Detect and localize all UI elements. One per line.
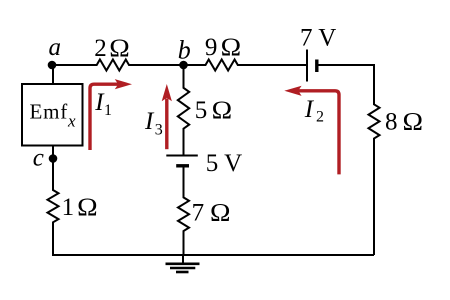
svg-text:Ω: Ω <box>210 200 231 227</box>
svg-text:2: 2 <box>316 108 324 125</box>
svg-text:I: I <box>144 108 155 135</box>
svg-text:Ω: Ω <box>77 194 98 221</box>
svg-text:x: x <box>67 112 76 131</box>
svg-text:7 V: 7 V <box>300 25 336 52</box>
svg-text:5 V: 5 V <box>206 150 242 177</box>
svg-text:7: 7 <box>192 200 205 227</box>
svg-text:3: 3 <box>155 121 163 138</box>
svg-text:Emf: Emf <box>30 99 69 123</box>
svg-text:9: 9 <box>205 34 218 61</box>
svg-text:2: 2 <box>94 35 107 62</box>
svg-text:8: 8 <box>385 109 398 136</box>
svg-text:I: I <box>304 96 315 123</box>
svg-text:b: b <box>178 36 191 65</box>
svg-text:Ω: Ω <box>109 35 130 62</box>
svg-text:1: 1 <box>104 102 112 119</box>
svg-text:a: a <box>49 34 62 61</box>
svg-text:Ω: Ω <box>221 34 242 61</box>
svg-text:Ω: Ω <box>403 109 424 136</box>
svg-text:Ω: Ω <box>212 97 233 124</box>
svg-text:1: 1 <box>62 194 75 221</box>
svg-text:c: c <box>33 145 44 172</box>
svg-text:5: 5 <box>195 97 208 124</box>
